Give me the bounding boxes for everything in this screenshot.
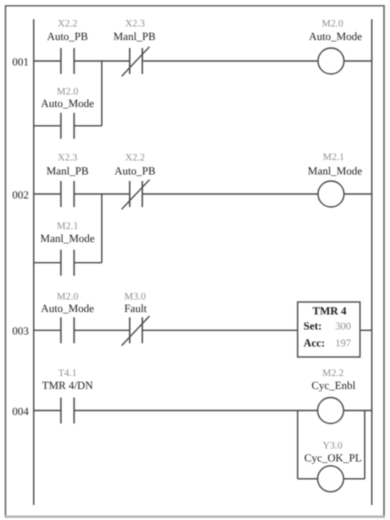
wire rung2 coil to rail xyxy=(344,193,372,195)
contact X2.3 Manl_PB (NO) xyxy=(61,181,74,207)
label M2.2 xyxy=(322,368,343,379)
contact X2.3 Manl_PB (NC) xyxy=(122,47,150,77)
label Manl_PB xyxy=(113,31,155,43)
right power rail xyxy=(371,19,373,505)
svg-text:X2.2: X2.2 xyxy=(125,153,145,164)
timer TMR 4 box xyxy=(298,302,360,357)
svg-text:TMR 4/DN: TMR 4/DN xyxy=(42,380,93,392)
svg-text:Manl_PB: Manl_PB xyxy=(113,31,155,43)
svg-text:Cyc_Enbl: Cyc_Enbl xyxy=(312,380,356,392)
svg-text:T4.1: T4.1 xyxy=(58,368,77,379)
wire rung3 timer box to rail xyxy=(360,329,372,331)
wire rung3 between contacts xyxy=(74,329,130,331)
svg-text:Auto_Mode: Auto_Mode xyxy=(309,31,362,43)
wire rung2 contact to coil xyxy=(142,193,318,195)
svg-text:300: 300 xyxy=(335,322,351,333)
branch rung2 wire contact to junction xyxy=(74,262,102,264)
border frame right xyxy=(383,5,385,518)
contact X2.2 Auto_PB (NO) xyxy=(61,48,74,74)
left power rail xyxy=(33,19,35,505)
wire rung3 rail to contact xyxy=(34,329,61,331)
branch rung4 wire to coil xyxy=(298,478,318,480)
branch rung1 wire contact to junction xyxy=(74,125,102,127)
branch rung4 wire coil to right vertical xyxy=(343,478,364,480)
svg-text:003: 003 xyxy=(12,326,29,338)
svg-text:Auto_PB: Auto_PB xyxy=(47,31,88,43)
label Y3.0 xyxy=(323,441,343,452)
svg-text:Auto_PB: Auto_PB xyxy=(115,165,156,177)
wire rung2 between contacts xyxy=(74,193,130,195)
label Auto_Mode xyxy=(309,31,362,43)
value 300 xyxy=(335,322,351,333)
svg-text:Manl_Mode: Manl_Mode xyxy=(308,166,363,178)
svg-text:001: 001 xyxy=(12,56,29,68)
label Cyc_OK_PL xyxy=(304,453,362,465)
svg-text:Manl_Mode: Manl_Mode xyxy=(40,233,95,245)
branch rung1 vertical junction wire xyxy=(101,61,103,126)
wire rung1 rail to contact X2.2 xyxy=(34,60,61,62)
value 197 xyxy=(335,339,351,350)
wire rung4 contact to coil xyxy=(74,410,318,412)
svg-text:X2.2: X2.2 xyxy=(58,19,78,30)
wire rung2 rail to contact xyxy=(34,193,61,195)
svg-text:X2.3: X2.3 xyxy=(125,19,145,30)
wire rung1 coil to rail xyxy=(344,60,372,62)
label M2.0 xyxy=(322,19,343,30)
label Manl_Mode xyxy=(308,166,363,178)
rung 003 number xyxy=(12,326,29,338)
branch rung1 wire rail to contact xyxy=(34,125,61,127)
wire rung4 rail to contact xyxy=(34,410,61,412)
svg-text:Fault: Fault xyxy=(124,303,147,315)
label X2.3 (rung2) xyxy=(58,153,78,164)
branch rung2 wire rail to contact xyxy=(34,262,61,264)
branch rung2 vertical junction wire xyxy=(101,194,103,263)
label M2.1 xyxy=(323,152,344,163)
label M3.0 xyxy=(124,291,145,302)
svg-text:M2.1: M2.1 xyxy=(323,152,344,163)
label M2.1 (branch) xyxy=(57,221,78,232)
label Fault xyxy=(124,303,147,315)
label Manl_PB (rung2) xyxy=(46,165,88,177)
svg-text:M2.0: M2.0 xyxy=(57,86,78,97)
label Auto_PB xyxy=(47,31,88,43)
coil M2.2 Cyc_Enbl xyxy=(318,398,344,424)
svg-text:M3.0: M3.0 xyxy=(124,291,145,302)
svg-text:TMR 4: TMR 4 xyxy=(313,306,347,318)
svg-text:Y3.0: Y3.0 xyxy=(323,441,343,452)
coil M2.1 Manl_Mode xyxy=(318,181,344,207)
rung 001 number xyxy=(12,56,29,68)
rung 004 number xyxy=(12,406,29,418)
contact T4.1 TMR 4/DN (NO) xyxy=(61,398,74,424)
svg-text:X2.3: X2.3 xyxy=(58,153,78,164)
svg-text:197: 197 xyxy=(335,339,351,350)
svg-text:M2.0: M2.0 xyxy=(322,19,343,30)
border frame bottom xyxy=(5,516,385,518)
contact M3.0 Fault (NC) xyxy=(122,316,150,346)
label Auto_Mode (branch) xyxy=(41,98,94,110)
svg-text:004: 004 xyxy=(12,406,29,418)
svg-text:Auto_Mode: Auto_Mode xyxy=(41,303,94,315)
svg-text:Set:: Set: xyxy=(304,321,322,333)
label TMR 4 xyxy=(313,306,347,318)
label X2.2 (rung2) xyxy=(125,153,145,164)
border frame left xyxy=(5,5,7,518)
svg-text:M2.1: M2.1 xyxy=(57,221,78,232)
svg-text:002: 002 xyxy=(12,189,29,201)
svg-text:Acc:: Acc: xyxy=(304,338,325,350)
label Auto_PB (rung2) xyxy=(115,165,156,177)
contact M2.1 Manl_Mode (NO, seal-in branch) xyxy=(61,250,74,276)
svg-text:Cyc_OK_PL: Cyc_OK_PL xyxy=(304,453,362,465)
wire rung1 between contacts xyxy=(74,60,130,62)
branch rung4 left vertical wire xyxy=(297,411,299,479)
label X2.3 xyxy=(125,19,145,30)
wire rung4 coil to rail xyxy=(343,410,372,412)
label T4.1 xyxy=(58,368,77,379)
label TMR 4/DN xyxy=(42,380,93,392)
label X2.2 xyxy=(58,19,78,30)
contact M2.0 Auto_Mode (NO) xyxy=(61,317,74,343)
svg-text:M2.0: M2.0 xyxy=(57,291,78,302)
wire rung3 contact to timer box xyxy=(142,329,297,331)
branch rung4 right vertical wire xyxy=(364,411,366,479)
rung 002 number xyxy=(12,189,29,201)
label Cyc_Enbl xyxy=(312,380,356,392)
label M2.0 (branch) xyxy=(57,86,78,97)
svg-text:M2.2: M2.2 xyxy=(322,368,343,379)
label M2.0 (rung3) xyxy=(57,291,78,302)
label Auto_Mode (rung3) xyxy=(41,303,94,315)
border frame top xyxy=(5,5,385,7)
label Manl_Mode (branch) xyxy=(40,233,95,245)
label Set: xyxy=(304,321,322,333)
svg-text:Manl_PB: Manl_PB xyxy=(46,165,88,177)
label Acc: xyxy=(304,338,325,350)
contact X2.2 Auto_PB (NC) xyxy=(122,180,150,210)
wire rung1 contact to coil xyxy=(142,60,318,62)
svg-text:Auto_Mode: Auto_Mode xyxy=(41,98,94,110)
contact M2.0 Auto_Mode (NO, seal-in branch) xyxy=(61,113,74,139)
coil Y3.0 Cyc_OK_PL xyxy=(318,466,344,492)
coil M2.0 Auto_Mode xyxy=(318,48,344,74)
